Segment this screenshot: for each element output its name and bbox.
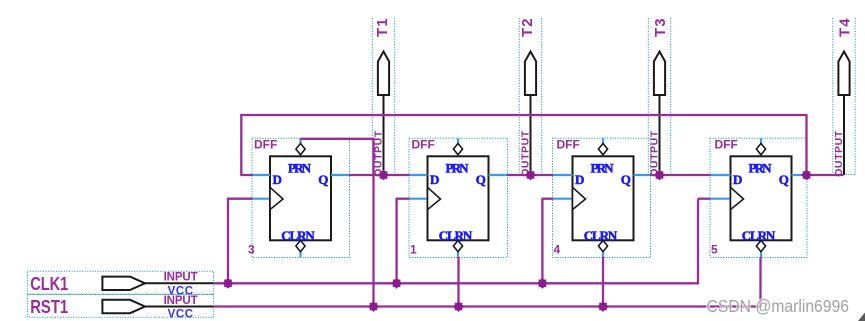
svg-text:DFF: DFF xyxy=(715,138,738,152)
flip-flop U4 clock triangle xyxy=(731,187,744,209)
flip-flop U1 pin stub CLRN (blue) xyxy=(299,252,301,258)
svg-text:DFF: DFF xyxy=(254,138,277,152)
wire: feedback left vertical down to D1 level xyxy=(240,114,242,175)
flip-flop U3 pin stub CLRN (blue) xyxy=(602,252,604,258)
wire: clock branch to U3 horizontal xyxy=(541,198,553,200)
junction node: CLK at U1 xyxy=(223,278,234,289)
wire: feedback into D1 xyxy=(240,174,252,176)
output pin T4 selection box xyxy=(833,18,855,175)
svg-text:4: 4 xyxy=(554,243,561,257)
wire: clock branch to U2 horizontal xyxy=(396,198,410,200)
flip-flop U2 CLRN bubble (diamond) xyxy=(453,241,462,252)
wire: clock branch to U4 horizontal xyxy=(698,198,711,200)
wire: net Q2 to D3 xyxy=(507,174,553,176)
wire: CLK1 branch to U1 clock vertical xyxy=(227,199,229,284)
svg-text:3: 3 xyxy=(248,243,255,257)
flip-flop U2 (DFF, instance 1) selection box xyxy=(409,138,508,257)
flip-flop U4 pin stub PRN (blue) xyxy=(760,138,762,143)
svg-text:D: D xyxy=(733,172,742,187)
flip-flop U2 pin stub Q (blue) xyxy=(489,174,508,176)
output pin T1 selection box xyxy=(372,18,394,175)
flip-flop U2 clock triangle xyxy=(428,187,441,209)
svg-text:PRN: PRN xyxy=(446,160,470,175)
flip-flop U3 clock triangle xyxy=(573,187,586,209)
svg-text:PRN: PRN xyxy=(288,160,312,175)
flip-flop U1 PRN bubble (diamond) xyxy=(296,144,305,155)
flip-flop U3 pin stub D (blue) xyxy=(553,174,573,176)
svg-text:Q: Q xyxy=(779,172,789,187)
flip-flop U2 PRN bubble (diamond) xyxy=(453,144,462,155)
svg-text:1: 1 xyxy=(410,243,417,257)
wire: CLK1 branch to U1 clock horizontal xyxy=(227,198,253,200)
svg-text:INPUT: INPUT xyxy=(164,295,198,307)
svg-text:CLRN: CLRN xyxy=(439,228,473,243)
output pin T4 symbol (pentagon) xyxy=(838,52,849,96)
wire: U2 CLRN drop vertical x=458.5 xyxy=(457,257,459,307)
wire: U4 CLRN riser vertical x=760.5 xyxy=(759,257,761,308)
flip-flop U2 body xyxy=(428,156,489,240)
flip-flop U1 (DFF, instance 3) selection box xyxy=(252,138,350,257)
flip-flop U1 pin stub D (blue) xyxy=(252,174,270,176)
flip-flop U2 pin stub CLRN (blue) xyxy=(457,252,459,258)
wire: feedback top horizontal run y=115 xyxy=(240,114,807,116)
svg-text:CLRN: CLRN xyxy=(281,228,315,243)
svg-text:T1: T1 xyxy=(374,18,391,37)
flip-flop U4 body xyxy=(731,156,792,240)
flip-flop U1 pin stub CLK (blue) xyxy=(252,198,270,200)
input pin RST1 lead line xyxy=(145,306,214,308)
input pin RST1 selection box xyxy=(27,295,213,318)
svg-text:Q: Q xyxy=(476,172,486,187)
svg-text:5: 5 xyxy=(711,243,718,257)
flip-flop U4 pin stub D (blue) xyxy=(710,174,731,176)
wire: net Q1 to D2 xyxy=(349,174,410,176)
svg-text:VCC: VCC xyxy=(168,309,194,321)
output pin T3 lead line xyxy=(659,95,661,175)
junction node: T1 tap xyxy=(378,170,389,181)
flip-flop U1 pin stub PRN (blue) xyxy=(299,138,301,143)
output pin T1 symbol (pentagon) xyxy=(378,52,389,96)
wire: Q4 feedback vertical up from node at (806.5,175) xyxy=(805,115,807,175)
svg-text:CLRN: CLRN xyxy=(742,228,776,243)
flip-flop U2 pin stub D (blue) xyxy=(409,174,428,176)
wire: reset riser vertical x=373.5 (PRN1 to RST bus) xyxy=(372,139,374,307)
input pin CLK1 selection box xyxy=(27,271,213,294)
svg-text:OUTPUT: OUTPUT xyxy=(648,130,660,177)
flip-flop U4 PRN bubble (diamond) xyxy=(756,144,765,155)
wire: RST bus horizontal y=306.5 xyxy=(214,305,762,307)
svg-text:RST1: RST1 xyxy=(30,297,68,317)
svg-text:INPUT: INPUT xyxy=(164,272,198,284)
flip-flop U4 pin stub CLK (blue) xyxy=(710,198,731,200)
svg-text:T4: T4 xyxy=(837,18,854,37)
flip-flop U4 (DFF, instance 5) selection box xyxy=(710,138,807,257)
flip-flop U1 CLRN bubble (diamond) xyxy=(296,241,305,252)
wire: net Q4 to output pin T4 xyxy=(807,174,844,176)
svg-text:DFF: DFF xyxy=(412,138,435,152)
svg-text:CSDN @marlin6996: CSDN @marlin6996 xyxy=(707,296,850,316)
junction node: CLK at U3 xyxy=(537,278,548,289)
svg-text:PRN: PRN xyxy=(591,160,615,175)
wire: clock branch to U2 vertical xyxy=(395,199,397,284)
output pin T2 selection box xyxy=(519,18,541,175)
svg-text:T3: T3 xyxy=(652,18,669,37)
junction node: T2 tap xyxy=(525,170,536,181)
svg-text:D: D xyxy=(273,172,282,187)
junction node: T3 tap xyxy=(654,170,665,181)
flip-flop U4 CLRN bubble (diamond) xyxy=(756,241,765,252)
svg-text:DFF: DFF xyxy=(557,138,580,152)
flip-flop U3 (DFF, instance 4) selection box xyxy=(553,138,651,257)
flip-flop U3 CLRN bubble (diamond) xyxy=(598,241,607,252)
flip-flop U4 pin stub Q (blue) xyxy=(792,174,808,176)
output pin T4 lead line xyxy=(843,95,845,175)
svg-text:D: D xyxy=(575,172,584,187)
flip-flop U3 PRN bubble (diamond) xyxy=(598,144,607,155)
flip-flop U2 pin stub CLK (blue) xyxy=(409,198,428,200)
wire: net Q3 to D4 xyxy=(650,174,711,176)
svg-text:D: D xyxy=(430,172,439,187)
junction node: Q4 feedback node xyxy=(801,170,812,181)
svg-text:T2: T2 xyxy=(519,18,536,37)
junction node: RST at U2 CLRN xyxy=(453,301,464,312)
junction node: CLK at U2 xyxy=(391,278,402,289)
junction node: RST at U3 CLRN xyxy=(598,301,609,312)
flip-flop U3 pin stub PRN (blue) xyxy=(602,138,604,143)
wire: CLK bus horizontal y=283.3 xyxy=(214,282,699,284)
svg-text:CLRN: CLRN xyxy=(584,228,618,243)
flip-flop U4 pin stub CLRN (blue) xyxy=(760,252,762,258)
flip-flop U2 pin stub PRN (blue) xyxy=(457,138,459,143)
svg-text:Q: Q xyxy=(621,172,631,187)
wire: clock branch to U3 vertical xyxy=(541,199,543,284)
output pin T2 lead line xyxy=(530,95,532,175)
svg-text:CLK1: CLK1 xyxy=(30,274,68,294)
wire: PRN1 horizontal to reset riser xyxy=(301,138,375,140)
svg-text:OUTPUT: OUTPUT xyxy=(833,130,845,177)
flip-flop U3 pin stub Q (blue) xyxy=(634,174,651,176)
flip-flop U1 pin stub Q (blue) xyxy=(331,174,350,176)
input pin RST1 symbol (pentagon) xyxy=(102,300,145,313)
input pin CLK1 symbol (pentagon) xyxy=(102,277,145,290)
junction node: RST at PRN1 riser xyxy=(368,301,379,312)
flip-flop U1 clock triangle xyxy=(270,187,283,209)
output pin T3 selection box xyxy=(648,18,670,175)
input pin CLK1 lead line xyxy=(145,282,214,284)
flip-flop U3 body xyxy=(573,156,634,240)
flip-flop U3 pin stub CLK (blue) xyxy=(553,198,573,200)
output pin T3 symbol (pentagon) xyxy=(654,52,665,96)
corner artifact bottom-right xyxy=(858,313,865,321)
svg-text:Q: Q xyxy=(318,172,328,187)
flip-flop U1 body xyxy=(270,156,331,240)
svg-text:PRN: PRN xyxy=(749,160,773,175)
wire: clock branch to U4 vertical xyxy=(697,199,699,285)
output pin T2 symbol (pentagon) xyxy=(525,52,536,96)
wire: U3 CLRN drop vertical x=603 xyxy=(602,257,604,307)
svg-text:OUTPUT: OUTPUT xyxy=(519,130,531,177)
output pin T1 lead line xyxy=(383,95,385,175)
